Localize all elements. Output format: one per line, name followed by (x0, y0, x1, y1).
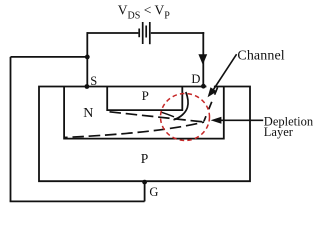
node S (85, 84, 90, 89)
depletion layer pointer arrow (211, 117, 264, 124)
wire drain vertical (202, 32, 204, 86)
wire source vertical (86, 32, 88, 86)
pinched channel solid curve (174, 92, 189, 120)
svg-text:Layer: Layer (264, 125, 294, 139)
battery plate short 1 (138, 29, 140, 38)
wire gate up to G (144, 182, 146, 201)
wire battery left (87, 32, 138, 34)
depletion boundary lower dashed (64, 122, 204, 138)
wire battery right (151, 32, 204, 34)
svg-text:G: G (149, 185, 158, 199)
battery plate long 2 (149, 22, 151, 44)
wire gate bottom horizontal (10, 200, 145, 202)
battery VDS source (87, 22, 204, 44)
pinch-off red dashed circle (161, 94, 210, 141)
depletion boundary right dashed (204, 87, 218, 121)
junction node (85, 55, 90, 60)
svg-text:P: P (142, 88, 149, 103)
wire gate left vertical (10, 57, 12, 202)
svg-text:P: P (141, 151, 149, 166)
wire gate branch horizontal (11, 56, 88, 58)
depletion boundary upper dashed (110, 112, 205, 122)
inner box n-channel (64, 87, 224, 139)
svg-text:Channel: Channel (237, 49, 284, 64)
svg-text:N: N (83, 106, 93, 121)
top gate box P (107, 87, 182, 111)
node G (142, 180, 147, 185)
battery plate short 2 (145, 26, 147, 38)
gate corner depletion spur (161, 112, 174, 117)
battery plate long 1 (142, 22, 144, 44)
current arrow on drain wire (198, 54, 207, 65)
outer box p-substrate (top edge has gap for channel opening) (39, 87, 250, 182)
svg-text:D: D (191, 72, 200, 86)
channel pointer arrow (208, 54, 237, 97)
node D (201, 84, 206, 89)
